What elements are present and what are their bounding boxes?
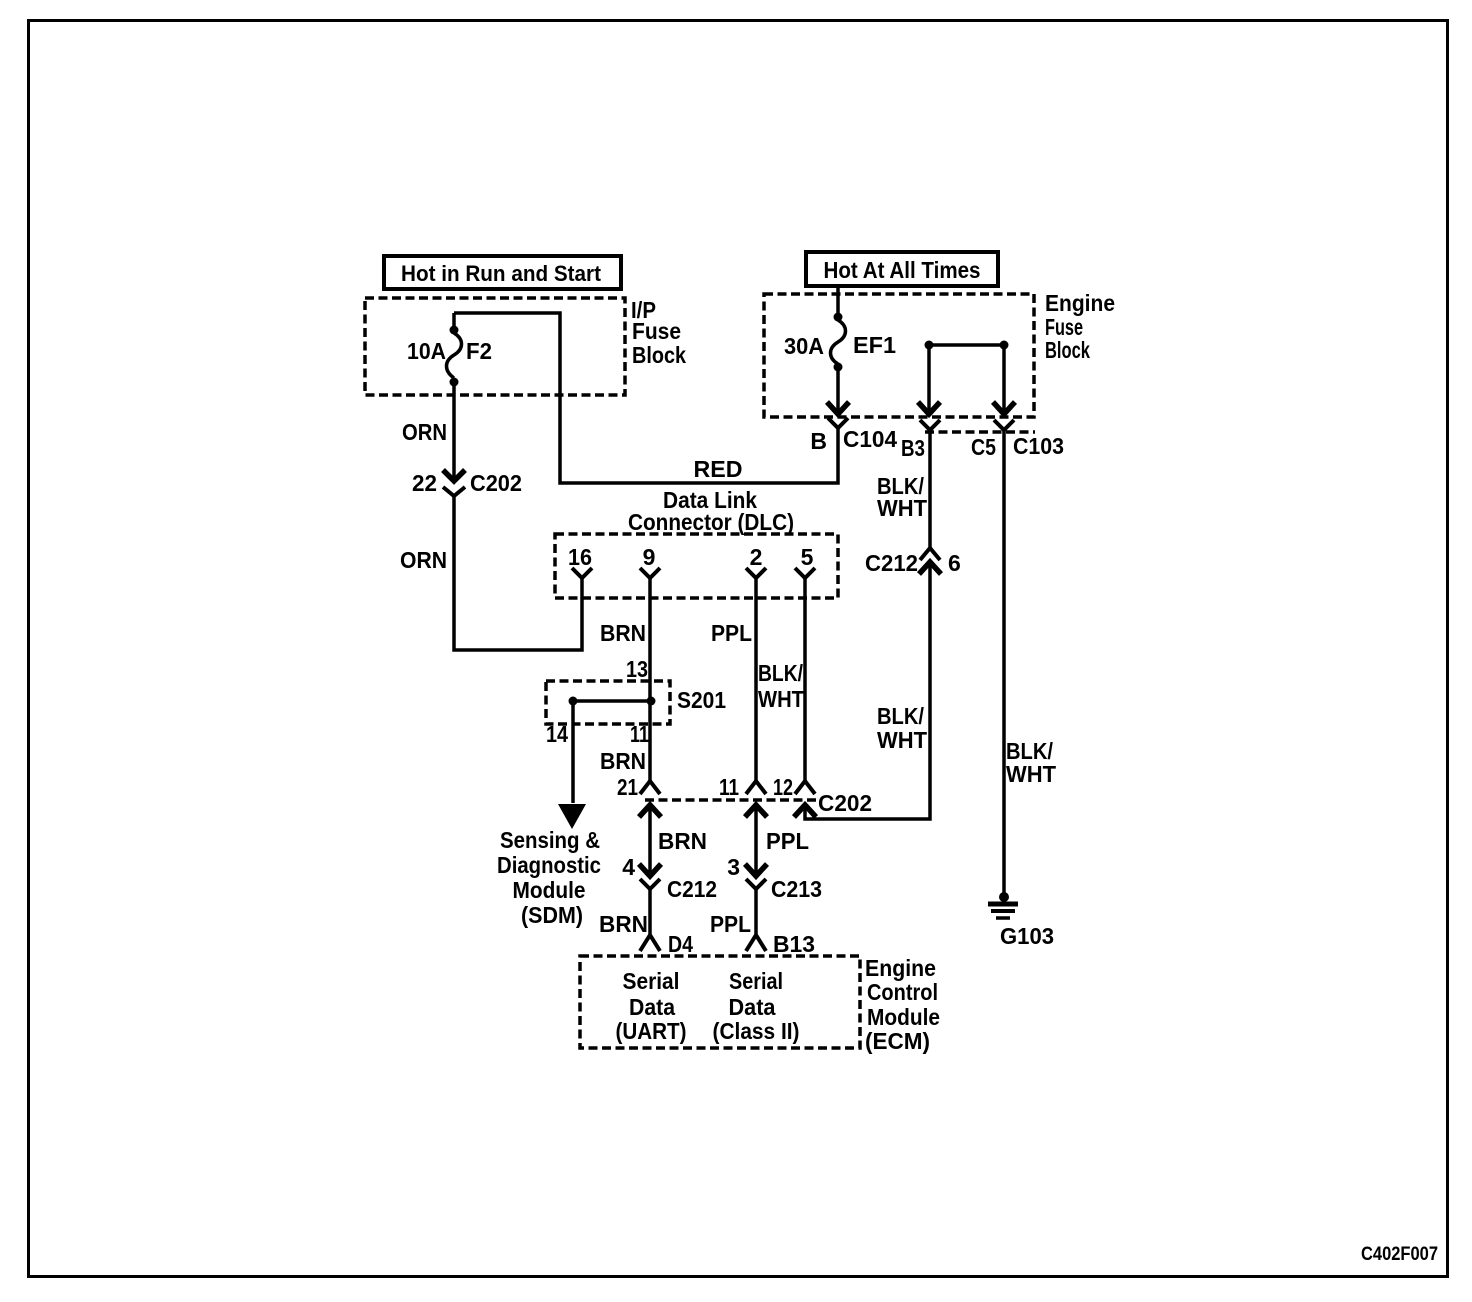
svg-text:G103: G103 [1000,923,1054,949]
svg-text:C104: C104 [843,426,897,452]
svg-text:6: 6 [948,550,961,576]
svg-text:PPL: PPL [710,911,751,937]
svg-text:ORN: ORN [402,419,447,445]
svg-text:(Class II): (Class II) [713,1018,800,1044]
svg-text:BRN: BRN [599,911,648,937]
svg-text:Data: Data [729,994,776,1020]
svg-text:PPL: PPL [766,828,809,854]
svg-text:3: 3 [727,854,740,880]
svg-text:(SDM): (SDM) [521,902,583,928]
svg-text:10A: 10A [407,338,446,364]
svg-text:C5: C5 [971,434,996,460]
svg-text:Module: Module [513,877,586,903]
svg-text:Serial: Serial [729,968,783,994]
svg-text:Sensing &: Sensing & [500,827,600,853]
svg-text:BRN: BRN [600,620,646,646]
svg-text:14: 14 [546,721,568,747]
svg-text:D4: D4 [668,931,693,957]
svg-text:WHT: WHT [1006,761,1056,787]
svg-text:C103: C103 [1013,433,1064,459]
svg-text:Data: Data [629,994,675,1020]
svg-text:S201: S201 [677,687,726,713]
svg-text:5: 5 [801,544,814,570]
svg-text:Block: Block [1045,337,1090,363]
svg-text:C213: C213 [771,876,822,902]
svg-text:BRN: BRN [658,828,707,854]
svg-text:Diagnostic: Diagnostic [497,852,601,878]
svg-text:RED: RED [694,456,743,482]
svg-text:WHT: WHT [877,495,927,521]
svg-text:16: 16 [568,544,592,570]
svg-text:Engine: Engine [1045,290,1115,316]
svg-text:WHT: WHT [758,686,804,712]
svg-text:(UART): (UART) [616,1018,687,1044]
svg-text:(ECM): (ECM) [865,1028,930,1054]
svg-text:Control: Control [867,979,938,1005]
svg-text:11: 11 [719,774,739,800]
svg-text:BLK/: BLK/ [758,660,804,686]
svg-text:Fuse: Fuse [632,318,681,344]
svg-text:12: 12 [773,774,793,800]
svg-text:13: 13 [626,656,648,682]
svg-text:B3: B3 [901,435,925,461]
svg-text:Hot in Run and Start: Hot in Run and Start [401,261,602,286]
svg-text:F2: F2 [466,338,492,364]
svg-text:C202: C202 [818,790,872,816]
svg-text:EF1: EF1 [853,332,896,358]
svg-text:9: 9 [643,544,656,570]
svg-text:WHT: WHT [877,727,927,753]
svg-text:Block: Block [632,342,686,368]
svg-text:Connector (DLC): Connector (DLC) [628,509,794,535]
svg-text:ORN: ORN [400,547,447,573]
svg-text:Serial: Serial [623,968,680,994]
svg-text:4: 4 [622,854,635,880]
svg-text:Engine: Engine [865,955,936,981]
svg-text:B: B [810,428,827,454]
svg-text:C202: C202 [470,470,522,496]
svg-text:30A: 30A [784,333,824,359]
svg-text:C212: C212 [865,550,918,576]
svg-text:21: 21 [617,774,638,800]
svg-text:PPL: PPL [711,620,752,646]
svg-text:C212: C212 [667,876,717,902]
svg-text:BRN: BRN [600,748,646,774]
svg-text:BLK/: BLK/ [877,703,925,729]
svg-text:Module: Module [867,1004,940,1030]
svg-text:22: 22 [412,470,437,496]
svg-text:11: 11 [630,721,649,747]
svg-text:Hot At All Times: Hot At All Times [824,257,981,283]
svg-text:C402F007: C402F007 [1361,1244,1438,1265]
svg-text:2: 2 [750,544,763,570]
svg-text:B13: B13 [773,931,815,957]
